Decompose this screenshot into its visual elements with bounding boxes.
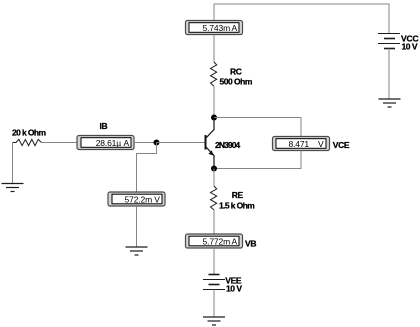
wire top horizontal from ammeter to VCC (214, 4, 389, 34)
svg-text:VB: VB (245, 238, 256, 248)
resistor 20k zigzag (13, 139, 42, 145)
svg-text:28.61µ: 28.61µ (96, 138, 122, 148)
voltmeter VCE box (273, 137, 330, 151)
svg-text:5.743m: 5.743m (203, 23, 231, 33)
wire collector to VCE branch (214, 118, 301, 137)
wire VCC to ground (388, 49, 390, 100)
svg-text:8.471: 8.471 (288, 139, 309, 149)
transistor Q1 2N3904 (206, 118, 215, 169)
ground (below 572 meter) (126, 247, 148, 255)
wire IB meter to base node (134, 142, 157, 144)
voltmeter 572.2mV box (108, 192, 165, 206)
node emitter junction dot (211, 166, 217, 172)
wire 20k to IB meter (41, 142, 77, 144)
wire base node down to VB voltmeter (137, 143, 157, 193)
wire base node to transistor base (157, 142, 205, 144)
node base junction dot (154, 140, 160, 146)
ammeter IB box (77, 136, 134, 150)
svg-text:RC: RC (230, 67, 242, 77)
wire VEE to bottom ground (213, 290, 215, 318)
battery VCC (378, 34, 400, 49)
battery VEE (203, 275, 225, 290)
ground (left) (2, 184, 24, 192)
svg-text:IB: IB (100, 121, 108, 131)
wire 572 meter to ground (136, 206, 138, 247)
ground (bottom) (203, 317, 225, 325)
svg-text:2N3904: 2N3904 (215, 140, 241, 150)
svg-text:A: A (231, 237, 237, 247)
wire RC to collector node (213, 86, 215, 117)
resistor RC (211, 62, 217, 86)
wire VCE meter to emitter wire (214, 151, 301, 169)
svg-text:VCE: VCE (333, 140, 350, 150)
wire ammeter to RC (213, 35, 215, 63)
svg-text:10 V: 10 V (402, 42, 418, 52)
node collector junction dot (211, 115, 217, 121)
ammeter VB box (186, 234, 243, 248)
wire 20k to left ground (12, 143, 14, 184)
svg-text:10 V: 10 V (226, 283, 242, 293)
svg-text:V: V (154, 195, 160, 205)
svg-text:572.2m: 572.2m (125, 195, 153, 205)
resistor RE (211, 186, 217, 210)
svg-text:A: A (123, 138, 129, 148)
svg-text:RE: RE (232, 190, 244, 200)
wire VB meter to VEE battery (213, 248, 215, 275)
ammeter ITOT box (186, 21, 243, 35)
wire emitter to RE (213, 169, 215, 187)
svg-text:V: V (318, 139, 324, 149)
wire RE to VB ammeter (213, 210, 215, 234)
svg-text:500 Ohm: 500 Ohm (220, 77, 253, 87)
svg-text:A: A (231, 23, 237, 33)
svg-text:5.772m: 5.772m (203, 237, 231, 247)
svg-text:1.5 k Ohm: 1.5 k Ohm (219, 200, 255, 210)
svg-text:20 k Ohm: 20 k Ohm (12, 127, 47, 137)
ground (below VCC) (379, 99, 401, 107)
